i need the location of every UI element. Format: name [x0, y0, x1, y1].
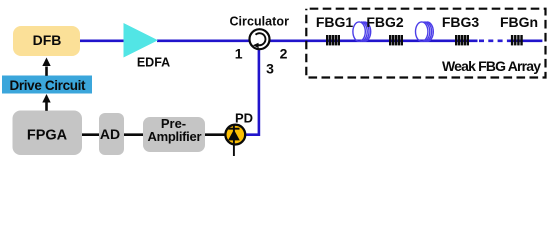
svg-text:DFB: DFB — [33, 32, 62, 48]
svg-text:EDFA: EDFA — [137, 56, 170, 70]
FPGA box — [13, 111, 83, 156]
arrow FPGA to Drive Circuit — [45, 102, 48, 111]
svg-text:1: 1 — [235, 46, 243, 62]
photodiode PD — [225, 125, 245, 145]
svg-text:2: 2 — [280, 46, 288, 62]
wire FPGA to AD — [82, 133, 99, 136]
svg-text:FBG3: FBG3 — [442, 14, 480, 30]
grating FBGn — [511, 35, 523, 45]
arrow Drive Circuit to DFB — [45, 67, 48, 76]
wire AD to Pre-Amplifier — [124, 133, 143, 136]
wire EDFA to circulator port 1 — [157, 39, 250, 42]
fiber coil 2 — [416, 22, 434, 41]
svg-text:FBG2: FBG2 — [366, 14, 404, 30]
wire Pre-Amplifier to PD — [205, 133, 226, 136]
svg-text:Circulator: Circulator — [229, 14, 289, 28]
amplifier EDFA — [124, 23, 159, 58]
svg-text:Drive Circuit: Drive Circuit — [10, 78, 87, 93]
svg-text:FPGA: FPGA — [27, 128, 68, 144]
svg-text:Amplifier: Amplifier — [148, 129, 202, 144]
wire circulator port 2 into FBG array (fiber) — [269, 39, 478, 42]
svg-text:PD: PD — [235, 110, 253, 125]
fiber through FBGn to array end — [509, 39, 542, 42]
grating FBG3 — [455, 35, 469, 45]
fiber coil 1 — [353, 22, 371, 41]
wire DFB to EDFA — [80, 39, 125, 42]
svg-text:Weak FBG Array: Weak FBG Array — [442, 58, 541, 74]
grating FBG2 — [389, 35, 403, 45]
grating FBG1 — [326, 35, 340, 45]
dashed fiber continuation between FBG3 and FBGn — [479, 39, 509, 42]
Drive Circuit box — [2, 76, 92, 94]
svg-text:FBGn: FBGn — [500, 14, 538, 30]
laser DFB box — [13, 26, 80, 56]
wire circulator port 3 down and left to PD — [246, 49, 259, 135]
circulator — [250, 29, 270, 49]
svg-text:AD: AD — [100, 126, 120, 142]
svg-text:3: 3 — [266, 60, 274, 76]
Pre-Amplifier box — [143, 117, 205, 152]
AD box — [99, 113, 124, 155]
svg-text:FBG1: FBG1 — [316, 14, 354, 30]
dashed enclosure Weak FBG Array — [306, 9, 545, 78]
